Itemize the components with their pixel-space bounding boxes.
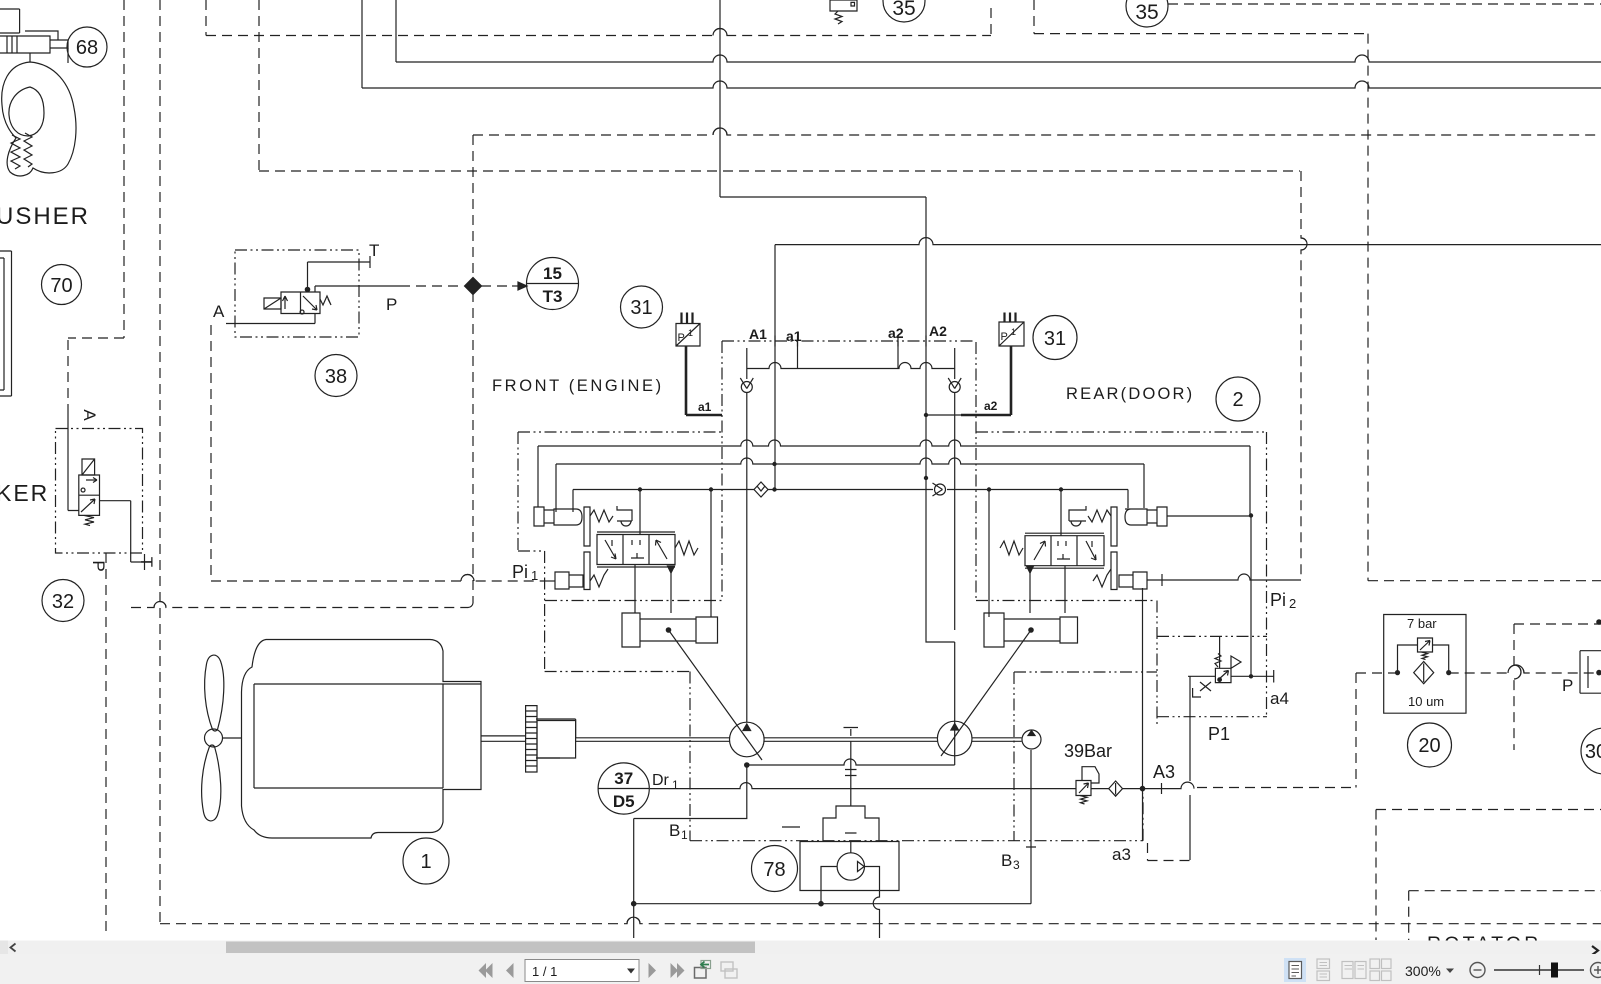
page number box [525, 960, 639, 982]
hop arcs solid overlays [154, 29, 1524, 924]
wire dashed x106 P supply [105, 553, 107, 935]
svg-text:USHER: USHER [0, 203, 90, 230]
wire dashed x160 [159, 0, 161, 924]
engine 1 body [242, 640, 482, 839]
boundary y671.5 [545, 671, 690, 673]
svg-text:10 um: 10 um [1408, 694, 1444, 709]
dashdot group [56, 250, 1268, 841]
wire dashed x211 [210, 325, 212, 581]
balloon 31 left [621, 286, 663, 328]
valve 38 pilot solenoid valve [226, 256, 400, 324]
fan blades [202, 655, 242, 821]
balloon 20 [1408, 723, 1452, 767]
svg-text:Dr: Dr [652, 772, 670, 789]
svg-text:FRONT (ENGINE): FRONT (ENGINE) [492, 377, 664, 395]
shaft coupling gear [526, 706, 576, 772]
boundary x976 [975, 342, 977, 601]
wire dashed y581 Pi1 [211, 575, 545, 581]
svg-text:1: 1 [672, 778, 679, 792]
icon continuous page [1317, 959, 1330, 981]
svg-text:30: 30 [1585, 741, 1601, 763]
svg-text:7 bar: 7 bar [1407, 616, 1437, 631]
svg-text:B: B [1001, 851, 1012, 870]
balloon 1 [403, 838, 449, 884]
rear main valve body [1000, 533, 1104, 573]
svg-text:300%: 300% [1405, 963, 1441, 979]
wire valve bottom links [635, 565, 1065, 614]
svg-text:1: 1 [420, 851, 431, 873]
svg-text:39Bar: 39Bar [1064, 741, 1112, 761]
top small valve near 35 [830, 0, 857, 24]
check valve upper left [740, 378, 753, 393]
pump P1 main piston pump [730, 722, 765, 767]
port tick A1 [774, 336, 776, 347]
wire dashed x259 [258, 0, 260, 171]
svg-text:T: T [137, 557, 156, 567]
filter 7bar 10um box 20 [1384, 615, 1466, 714]
svg-text:P: P [1001, 331, 1008, 343]
wire B3 vertical x1031 [1026, 750, 1036, 904]
balloon 38 [315, 355, 357, 397]
valve 32 breaker solenoid valve [68, 412, 145, 570]
port tick A2 [925, 336, 927, 347]
pump P3 gear pump [1022, 730, 1041, 749]
wire dashed y4 top right [1168, 3, 1601, 5]
button zoom in partial [1591, 963, 1601, 978]
scrollbar corner box [0, 941, 8, 955]
svg-text:P: P [1562, 676, 1573, 695]
wire shaft lines [481, 736, 1022, 741]
relief valve P1 [1188, 636, 1241, 697]
svg-text:68: 68 [76, 37, 98, 59]
pump P2 main piston pump [937, 721, 972, 756]
svg-text:a1: a1 [786, 328, 802, 344]
wire arrow into T3 [512, 285, 518, 287]
wire dashed x991 [990, 8, 992, 36]
svg-text:B: B [669, 821, 680, 840]
boundary pilot line y341 [722, 340, 976, 342]
wire pump1 return corner [634, 765, 747, 938]
svg-text:T: T [369, 241, 379, 260]
wire dashed rotator box inner [1409, 891, 1601, 940]
wire a2 stub [897, 341, 899, 369]
wire dashed x1034 [1033, 0, 1035, 34]
svg-text:20: 20 [1418, 735, 1440, 757]
wire dashed x124 [123, 0, 125, 338]
wire solid y244.6 with hop [775, 238, 1601, 245]
wire y903.7 return [634, 903, 1031, 905]
wire dashed a3 box [1148, 843, 1191, 861]
svg-text:a4: a4 [1270, 689, 1289, 708]
wire dashed A3 to rotator [1197, 787, 1356, 789]
wire A1 vertical x775 [774, 245, 776, 490]
rear valve group: lower pilot [1093, 552, 1147, 590]
balloon 68 [67, 27, 107, 67]
boundary x1157 [1156, 601, 1158, 725]
rear valve group: upper pilot [1069, 506, 1167, 546]
wire Dr1 A3 drain line y788.6 [650, 782, 1194, 794]
boundary box 38 [235, 250, 359, 337]
button zoom out [1470, 963, 1485, 978]
wire dashed y923.7 bottom [160, 917, 1601, 924]
connector 31 left [676, 313, 722, 416]
svg-text:78: 78 [763, 859, 785, 881]
wire rear pilot rod y516 [1167, 515, 1251, 517]
filter diamond A3 [1109, 781, 1123, 796]
svg-text:37: 37 [614, 769, 633, 788]
wire dashed x1301 remote [1301, 171, 1307, 577]
toolbar ui [0, 941, 1601, 984]
boundary x1014 [1013, 672, 1015, 841]
pto housing steps [823, 806, 879, 842]
svg-text:KER: KER [0, 480, 49, 506]
boundary P1 box [1157, 432, 1267, 717]
wire dashed x473 [468, 135, 473, 608]
icon two page continuous [1370, 959, 1391, 981]
button next page [649, 963, 657, 978]
boundary y432 [518, 431, 1266, 433]
icon next view disabled [721, 962, 737, 978]
svg-text:1: 1 [531, 568, 538, 583]
svg-text:D5: D5 [613, 792, 635, 811]
svg-text:a2: a2 [888, 325, 904, 341]
balloon 2 [1216, 377, 1260, 421]
svg-text:1 / 1: 1 / 1 [532, 964, 557, 979]
svg-text:31: 31 [1044, 328, 1066, 350]
svg-text:32: 32 [52, 591, 74, 613]
scrollbar track [0, 941, 1601, 955]
svg-text:1: 1 [688, 328, 693, 338]
wire gear step link [536, 719, 576, 758]
svg-text:70: 70 [50, 275, 72, 297]
wire check line left x746.8 [746, 348, 748, 722]
button last page [671, 963, 685, 978]
wire check line right x954.7 [954, 348, 956, 630]
wire A2 vertical x926 step to pump2 [926, 197, 955, 765]
wire dashed x1356 [1355, 673, 1357, 788]
wire valve top feeds [640, 490, 1061, 618]
wire y446 rail [538, 440, 1250, 446]
boundary x690 [689, 672, 691, 841]
svg-text:REAR(DOOR): REAR(DOOR) [1066, 385, 1194, 403]
svg-text:2: 2 [1289, 596, 1296, 611]
button first page [479, 963, 493, 978]
balloon 30 partial [1581, 728, 1601, 774]
wire solid horizontal y62 [396, 55, 1601, 62]
wire x1251 down to a4 [1250, 516, 1252, 677]
wire B1 stub [782, 826, 800, 828]
svg-text:A3: A3 [1153, 762, 1175, 782]
button prev page [506, 963, 514, 978]
wire dashed x1368 [1367, 34, 1369, 581]
svg-text:P1: P1 [1208, 724, 1230, 744]
boundary front box left [518, 432, 545, 672]
wire dashed rotator box outer [1376, 810, 1601, 941]
wire solid horizontal y88 [362, 81, 1601, 88]
svg-text:35: 35 [892, 0, 915, 20]
balloon 78 [752, 846, 798, 892]
caret zoom dropdown [1446, 969, 1454, 974]
port tick a1 [797, 336, 799, 347]
svg-text:35: 35 [1135, 1, 1158, 24]
rear slave piston assembly [941, 613, 1078, 756]
wire dashed x206 top [205, 0, 207, 36]
svg-text:A2: A2 [929, 323, 947, 339]
wire dashed y673 suction [1356, 665, 1601, 673]
icon previous view [695, 961, 711, 979]
svg-text:15: 15 [543, 264, 562, 283]
svg-text:3: 3 [1013, 858, 1020, 872]
svg-text:P: P [89, 560, 108, 571]
svg-text:A1: A1 [749, 326, 767, 342]
svg-text:A: A [213, 302, 225, 321]
wire P1 drain vertical x1190 [1189, 676, 1191, 860]
svg-text:1: 1 [681, 828, 688, 842]
scrollbar right arrow [1592, 946, 1598, 955]
connector 31 right [926, 313, 1024, 416]
wire comp78 ports [821, 867, 880, 939]
component breaker accumulator [0, 251, 12, 396]
svg-text:1: 1 [1011, 327, 1016, 337]
svg-text:a1: a1 [698, 400, 712, 414]
wire dashed y580.7 right [1368, 580, 1601, 582]
wire y464 rail [556, 458, 1144, 464]
wire rear lower pilot y580 to remote [1147, 574, 1301, 586]
wire dashed arrow segment to T3 [481, 285, 512, 287]
scrollbar thumb [226, 942, 755, 954]
svg-text:a2: a2 [984, 399, 998, 413]
icon two page [1342, 962, 1366, 979]
relief valve 39Bar [1076, 767, 1099, 804]
svg-text:Pi: Pi [1270, 590, 1286, 610]
wire dashed y135 [473, 128, 1601, 135]
wire a1 stub [797, 341, 799, 369]
node dot A3 [1140, 786, 1144, 790]
wire dashed y33.6 [1034, 33, 1366, 35]
boundary x722 [721, 341, 723, 601]
balloon 35 first partial [883, 0, 925, 22]
front main valve body [597, 532, 698, 573]
wire dashed corner y340 [68, 338, 124, 412]
svg-text:P: P [678, 332, 685, 344]
port tick a2 [897, 336, 899, 347]
svg-text:Pi: Pi [512, 562, 528, 582]
wire y489.5 rail [573, 489, 1128, 491]
wire dashed y607.5 [131, 602, 468, 608]
boundary y600.5 [545, 600, 1155, 602]
wire solid y197 [720, 196, 926, 198]
check valve diamond left [754, 482, 768, 497]
svg-text:A: A [80, 409, 99, 421]
wire pump drain y765 [747, 759, 955, 765]
component crusher 68 [0, 9, 76, 176]
svg-text:a3: a3 [1112, 845, 1131, 864]
zoom slider [1494, 969, 1584, 971]
wire pto shaft x850.8 [844, 728, 859, 807]
port P box right edge [1580, 620, 1601, 693]
front valve group: lower pilot [545, 552, 608, 590]
wire dashed y35.5 [206, 29, 991, 36]
check valve upper right [948, 378, 961, 393]
balloon 37 D5 [598, 763, 649, 814]
toolbar background [0, 954, 1601, 984]
wire solid frame top verticals [362, 0, 720, 197]
boundary y840.7 a3 [690, 793, 1143, 841]
wire x1142.5 pilot drain [1142, 588, 1144, 841]
wire dashed x1514 [1514, 624, 1521, 750]
component 78 pto pump box [632, 842, 900, 906]
front slave piston assembly [622, 613, 762, 760]
balloon 32 [42, 580, 84, 622]
node diamond junction [465, 278, 482, 295]
wire a4 line [1215, 670, 1274, 683]
check valve circle right [933, 483, 946, 496]
boundary y672 [1014, 671, 1157, 673]
svg-text:31: 31 [630, 297, 652, 319]
wire dashed P line comp38 [400, 285, 462, 287]
balloon 35 second partial [1126, 0, 1168, 27]
wire y368.5 pilot cross line [747, 363, 955, 369]
icon single page selected [1284, 958, 1306, 982]
balloon 31 right [1033, 316, 1077, 360]
wire dashed y171 [259, 170, 1300, 172]
boundary box 32 [56, 429, 143, 554]
wire pilot corner verticals [538, 446, 1250, 516]
svg-text:P: P [386, 295, 397, 314]
wire dashed y624 [1514, 623, 1601, 625]
scrollbar left arrow [11, 944, 16, 952]
svg-text:2: 2 [1232, 389, 1243, 411]
front valve group: upper pilot [534, 506, 632, 546]
svg-text:38: 38 [325, 366, 347, 388]
svg-text:T3: T3 [543, 287, 563, 306]
balloon 70 [42, 265, 82, 305]
node dots misc central [638, 413, 1253, 679]
balloon 15 T3 [527, 258, 579, 310]
